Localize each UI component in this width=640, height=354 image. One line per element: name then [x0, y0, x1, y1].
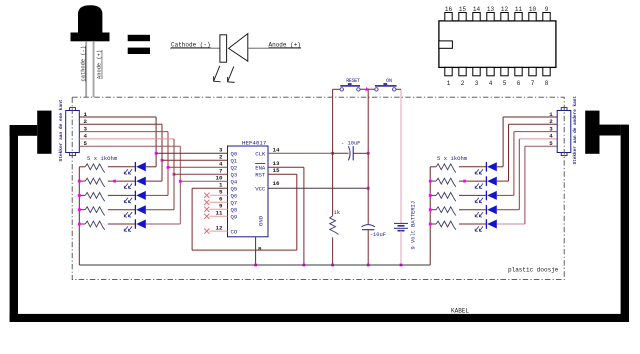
svg-text:2: 2: [84, 118, 88, 125]
junction battery rail: [400, 264, 403, 267]
junction VCC node: [367, 187, 370, 190]
battery BT1 plates: [394, 222, 408, 224]
wire R7 to LED6: [459, 166, 486, 168]
LED D8 blue: [485, 191, 487, 201]
wire Q3 to node: [174, 173, 228, 175]
resistor R11 1k: [436, 221, 456, 230]
LED D2 blue: [134, 176, 136, 186]
cable plug left: [37, 111, 51, 154]
svg-text:16: 16: [273, 180, 280, 187]
wire VCC node to C2: [367, 188, 369, 224]
diode emission arrow 2: [228, 66, 234, 81]
svg-text:RESET: RESET: [346, 78, 360, 84]
LED D4 blue: [134, 205, 136, 215]
cable right arm: [600, 125, 621, 136]
svg-text:2: 2: [461, 80, 465, 87]
resistor R9 1k: [436, 193, 456, 202]
stub wire pin9 n.c.: [210, 208, 228, 210]
junction Q3 to node 4: [173, 173, 176, 176]
wire right bus vertical: [429, 167, 431, 265]
svg-text:5: 5: [84, 140, 88, 147]
svg-text:3: 3: [219, 147, 223, 154]
svg-text:Q9: Q9: [231, 214, 238, 221]
svg-text:Q5: Q5: [231, 186, 238, 193]
right connector pin 1 number: [549, 111, 553, 118]
stub wire pin11 n.c.: [210, 215, 228, 217]
svg-text:KABEL: KABEL: [451, 307, 469, 314]
stub wire pin5 n.c.: [210, 194, 228, 196]
svg-text:8: 8: [258, 246, 262, 253]
svg-text:ON: ON: [386, 78, 392, 84]
wire C2 to rail: [367, 230, 369, 265]
wire LED2 to node: [146, 180, 162, 182]
junction right row2 mid: [463, 180, 466, 183]
svg-text:4: 4: [84, 133, 88, 140]
wire right connector pin 4: [519, 138, 557, 140]
svg-text:2: 2: [219, 154, 223, 161]
diode D1 cathode plate: [220, 35, 227, 62]
wire battery to rail: [400, 231, 402, 265]
svg-text:ENA: ENA: [255, 165, 266, 172]
svg-text:GND: GND: [257, 215, 264, 226]
svg-text:9 Volt BATTERIJ: 9 Volt BATTERIJ: [411, 201, 417, 250]
wire R8 to LED7: [459, 180, 486, 182]
svg-text:RST: RST: [255, 172, 266, 179]
IC pin 1 number: [219, 182, 223, 189]
wire ENA vertical to rail: [303, 167, 305, 265]
svg-text:4: 4: [219, 161, 223, 168]
wire R4 to LED4: [108, 209, 136, 211]
wire right bus to R8: [430, 180, 436, 182]
svg-text:2: 2: [549, 118, 553, 125]
LED D9 blue: [485, 205, 487, 215]
wire ON button to battery: [400, 89, 402, 223]
resistor R1 1k: [85, 164, 104, 173]
junction Q0 to node 1: [155, 152, 158, 155]
wire R5 to LED5: [108, 223, 136, 225]
svg-text:8: 8: [545, 80, 549, 87]
label Stekker aan de andere kant: [573, 96, 578, 165]
wire R1 to LED1: [108, 166, 136, 168]
wire LED4 to node: [146, 209, 174, 211]
wire right connector pin 5: [525, 145, 557, 147]
wire vertical node 3 left: [167, 132, 169, 196]
wire pin8 GND to rail: [255, 237, 257, 265]
cable bottom bar: [10, 314, 629, 322]
LED D7 emission arrows: [475, 184, 479, 189]
wire Q0 to node: [156, 152, 227, 154]
svg-text:15: 15: [459, 6, 467, 13]
LED D2 emission arrows: [124, 184, 128, 189]
wire RESET button to CLK node: [332, 89, 334, 153]
svg-text:13: 13: [487, 6, 495, 13]
LED lamp body (dome): [78, 5, 102, 32]
svg-text:5 x 1kOhm: 5 x 1kOhm: [437, 155, 468, 162]
svg-text:Q0: Q0: [231, 151, 238, 158]
junction pin8 rail: [254, 264, 257, 267]
junction C1 right: [367, 152, 370, 155]
svg-text:6: 6: [219, 196, 223, 203]
svg-text:5: 5: [549, 140, 553, 147]
X mark pin11: [204, 214, 209, 219]
junction Q4 to node 5: [179, 180, 182, 183]
svg-text:1k: 1k: [334, 210, 340, 216]
IC pin 5 number: [219, 189, 223, 196]
wire right connector pin 3: [514, 131, 557, 133]
right connector pin 5 number: [549, 140, 553, 147]
wire left connector pin 5: [79, 145, 180, 147]
cable plug right: [585, 111, 599, 154]
resistor R2 1k: [85, 178, 104, 187]
svg-text:Q7: Q7: [231, 200, 238, 207]
svg-text:HEF4017: HEF4017: [242, 140, 267, 147]
svg-text:Q6: Q6: [231, 193, 238, 200]
left connector pin 1 number: [84, 111, 88, 118]
wire Q5 pin1 left: [192, 187, 227, 189]
wire ENA pin13: [268, 166, 304, 168]
label Stekker aan de ene kant: [58, 99, 64, 161]
resistor R3 1k: [85, 193, 104, 202]
capacitor C2 -10uF plates: [362, 225, 375, 227]
svg-text:VCC: VCC: [255, 186, 266, 193]
svg-text:1: 1: [84, 111, 88, 118]
LED D1 blue: [134, 162, 136, 172]
cable right vertical: [621, 125, 629, 322]
wire reset loop right vertical: [296, 174, 298, 250]
wire R11 to LED10: [459, 223, 486, 225]
wire CLK to C1: [333, 152, 349, 154]
LED D3 blue: [134, 191, 136, 201]
svg-text:Stekker aan de ene kant: Stekker aan de ene kant: [58, 99, 64, 161]
svg-text:Anode (+): Anode (+): [269, 41, 301, 48]
resistor R10 1k: [436, 207, 456, 216]
wire LED3 to node: [146, 194, 168, 196]
wire Q4 to node: [180, 180, 227, 182]
resistor R7 1k: [436, 164, 456, 173]
svg-text:10: 10: [216, 175, 223, 182]
wire LED6 to node: [497, 166, 503, 168]
switch RESET bar: [340, 83, 360, 87]
junction R6 rail: [331, 264, 334, 267]
LED lamp flange: [71, 33, 110, 42]
svg-text:Cathode (-): Cathode (-): [171, 41, 211, 48]
junction left bus: [78, 223, 81, 226]
svg-text:12: 12: [501, 6, 509, 13]
junction C2 rail: [367, 264, 370, 267]
svg-text:Q1: Q1: [231, 158, 238, 165]
wire CLK node down to R6: [332, 153, 334, 216]
svg-text:5 x 1kOhm: 5 x 1kOhm: [87, 155, 118, 162]
connector J1 body: [66, 111, 80, 153]
switch ON bar: [375, 83, 397, 87]
svg-text:CLK: CLK: [255, 151, 266, 158]
wire R9 to LED8: [459, 194, 486, 196]
IC pin 3 number: [219, 147, 223, 154]
switch RESET terminals: [340, 88, 343, 91]
svg-text:4: 4: [489, 80, 493, 87]
LED D10 emission arrows: [475, 226, 479, 231]
LED D5 emission arrows: [124, 226, 128, 231]
DIP-16 top pins: [445, 13, 452, 21]
wire vertical node right 2: [508, 124, 510, 181]
wire C1 to VCC node: [353, 152, 368, 154]
svg-text:Q4: Q4: [231, 179, 238, 186]
svg-text:9: 9: [219, 203, 223, 210]
svg-text:Q3: Q3: [231, 172, 238, 179]
IC pin 10 number: [216, 175, 223, 182]
svg-text:15: 15: [273, 167, 280, 174]
junction left bus: [78, 194, 81, 197]
wire VCC pin16: [268, 187, 368, 189]
wire left connector pin 1: [79, 116, 156, 118]
IC pin 8 number: [258, 246, 262, 253]
LED D6 blue: [485, 162, 487, 172]
wire VCC node segment: [367, 153, 369, 188]
junction left bus: [78, 180, 81, 183]
wire LED7 to node: [497, 180, 509, 182]
wire right bus to R11: [430, 223, 436, 225]
LED D4 emission arrows: [124, 212, 128, 217]
wire CLK pin14: [268, 152, 333, 154]
equals sign: [128, 35, 150, 41]
wire LED1 to node: [146, 166, 156, 168]
svg-text:5: 5: [503, 80, 507, 87]
resistor R6 1k vertical: [330, 216, 339, 234]
svg-text:3: 3: [84, 125, 88, 132]
right connector pin 4 number: [549, 133, 553, 140]
svg-text:Q2: Q2: [231, 165, 238, 172]
svg-text:1: 1: [549, 111, 553, 118]
LED D1 emission arrows: [124, 169, 128, 174]
wire RST pin15: [268, 173, 297, 175]
svg-text:6: 6: [517, 80, 521, 87]
junction left row2 mid: [113, 180, 116, 183]
svg-text:10: 10: [529, 6, 537, 13]
LED D6 emission arrows: [475, 169, 479, 174]
junction CLK node: [331, 152, 334, 155]
wire vertical node 1 left: [155, 117, 157, 167]
svg-text:7: 7: [219, 168, 223, 175]
IC pin 11 number: [216, 210, 223, 217]
IC pin 13 number: [273, 160, 280, 167]
wire right connector pin 2: [509, 123, 558, 125]
wire switch junction down: [367, 89, 369, 154]
IC pin 16 number: [273, 180, 280, 187]
left connector pin 4 number: [84, 133, 88, 140]
LED anode leg: [93, 41, 95, 97]
junction right bus: [429, 194, 432, 197]
wire Q2 to node: [168, 166, 228, 168]
svg-text:cathode (-): cathode (-): [80, 46, 86, 82]
stub wire pin12 CO n.c.: [210, 230, 228, 232]
wire Q1 to node: [162, 159, 228, 161]
resistor R4 1k: [85, 207, 104, 216]
right connector pin 3 number: [549, 125, 553, 132]
IC pin 6 number: [219, 196, 223, 203]
X mark pin5: [204, 193, 209, 198]
LED D10 blue: [485, 219, 487, 229]
wire right bus to R7: [430, 166, 436, 168]
wire ON right to battery vertical: [396, 88, 401, 90]
wire R2 to LED2: [108, 180, 136, 182]
svg-text:Anode (+): Anode (+): [97, 50, 103, 79]
wire vertical node right 3: [513, 132, 515, 196]
IC package DIP-16 body with notch: [439, 21, 556, 68]
svg-text:1: 1: [447, 80, 451, 87]
LED D7 blue: [485, 176, 487, 186]
left connector pin 2 number: [84, 118, 88, 125]
LED D5 blue: [134, 219, 136, 229]
stub wire pin6 n.c.: [210, 201, 228, 203]
junction right bus: [429, 208, 432, 211]
junction left bus: [78, 208, 81, 211]
wire RESET right to junction: [360, 88, 376, 90]
wire vertical node 5 left: [179, 146, 181, 224]
svg-text:plastic doosje: plastic doosje: [508, 267, 559, 274]
svg-text:1: 1: [219, 182, 223, 189]
svg-text:11: 11: [515, 6, 523, 13]
junction between buttons: [365, 87, 369, 91]
LED D9 emission arrows: [475, 212, 479, 217]
svg-text:12: 12: [216, 224, 223, 231]
connector J2 body: [557, 111, 571, 153]
wire LED10 to node: [497, 223, 525, 225]
wire left connector pin 3: [79, 131, 168, 133]
junction ENA rail: [303, 264, 306, 267]
svg-text:-10uF: -10uF: [370, 232, 386, 238]
IC pin 15 number: [273, 167, 280, 174]
diode D1 triangle: [229, 34, 248, 62]
svg-text:4: 4: [549, 133, 553, 140]
wire RESET left to vertical: [333, 88, 341, 90]
LED D3 emission arrows: [124, 198, 128, 203]
IC pin 7 number: [219, 168, 223, 175]
wire vertical node right 1: [502, 117, 504, 167]
IC pin 2 number: [219, 154, 223, 161]
op IC U1 HEF4017 box: [228, 146, 269, 237]
wire vertical node right 4: [518, 139, 520, 210]
junction Q2 to node 3: [167, 166, 170, 169]
wire right bus to R10: [430, 209, 436, 211]
svg-text:3: 3: [475, 80, 479, 87]
right connector pin 2 number: [549, 118, 553, 125]
svg-text:7: 7: [531, 80, 535, 87]
left connector pin 5 number: [84, 140, 88, 147]
capacitor C1 -10uF plates: [348, 146, 350, 160]
LED D8 emission arrows: [475, 198, 479, 203]
wire right connector pin 1: [503, 116, 557, 118]
X mark pin6: [204, 200, 209, 205]
wire left connector pin 4: [79, 138, 174, 140]
svg-text:11: 11: [216, 210, 223, 217]
wire R3 to LED3: [108, 194, 136, 196]
wire R6 to rail: [332, 237, 334, 265]
DIP-16 bottom pins: [445, 67, 452, 75]
wire vertical node 4 left: [173, 139, 175, 210]
svg-text:5: 5: [219, 189, 223, 196]
wire reset loop left vertical: [191, 188, 193, 250]
resistor R8 1k: [436, 178, 456, 187]
switch ON terminals: [375, 88, 378, 91]
wire left bus to R4: [79, 209, 85, 211]
IC pin 4 number: [219, 161, 223, 168]
junction Q1 to node 2: [161, 159, 164, 162]
wire vertical node 2 left: [161, 124, 163, 181]
plastic doosje dashed border: [72, 97, 564, 279]
junction right bus: [429, 180, 432, 183]
svg-text:16: 16: [445, 6, 453, 13]
svg-text:14: 14: [473, 6, 481, 13]
cable left vertical: [10, 125, 18, 322]
junction right bus: [429, 223, 432, 226]
wire LED9 to node: [497, 209, 520, 211]
resistor R5 1k: [85, 221, 104, 230]
X mark pin9: [204, 207, 209, 212]
wire LED8 to node: [497, 194, 514, 196]
IC pin 12 number: [216, 224, 223, 231]
wire diode anode side: [248, 47, 301, 49]
svg-text:14: 14: [273, 147, 280, 154]
wire left bus to R5: [79, 223, 85, 225]
wire left connector pin 2: [79, 123, 162, 125]
svg-text:Stekker aan de andere kant: Stekker aan de andere kant: [573, 96, 578, 165]
wire R10 to LED9: [459, 209, 486, 211]
X mark pin12 CO: [204, 229, 209, 234]
left connector pin 3 number: [84, 125, 88, 132]
IC pin 9 number: [219, 203, 223, 210]
svg-text:CO: CO: [231, 228, 238, 235]
wire left bus to R2: [79, 180, 85, 182]
wire ground rail: [79, 264, 430, 266]
svg-text:13: 13: [273, 160, 280, 167]
svg-text:9: 9: [545, 6, 549, 13]
wire left bus to R3: [79, 194, 85, 196]
diode emission arrow 1: [214, 66, 220, 81]
wire vertical node right 5: [524, 146, 526, 224]
LED cathode leg: [85, 41, 87, 97]
wire right bus to R9: [430, 194, 436, 196]
svg-text:- 10uF: - 10uF: [341, 140, 360, 146]
wire LED5 to node: [146, 223, 181, 225]
wire reset loop bottom: [192, 249, 297, 251]
wire diode cathode side: [170, 47, 220, 49]
wire left resistor bus: [78, 167, 80, 265]
svg-text:Q8: Q8: [231, 207, 238, 214]
wire left bus to R1: [79, 166, 85, 168]
svg-text:3: 3: [549, 125, 553, 132]
cable left arm: [10, 125, 38, 136]
IC pin 14 number: [273, 147, 280, 154]
